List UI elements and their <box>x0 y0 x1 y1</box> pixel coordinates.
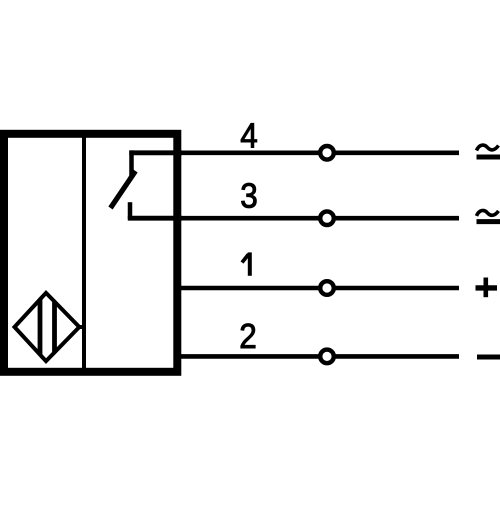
terminal circle pin 2 <box>320 350 334 364</box>
wire 4 <box>178 151 459 156</box>
svg-text:4: 4 <box>240 117 258 156</box>
wire 3 <box>178 216 459 221</box>
AC/DC supply symbol (tilde over bar) at wire 3 <box>477 211 500 222</box>
sensor body rectangle <box>4 134 177 372</box>
plus symbol at wire 1 <box>476 278 498 298</box>
divider line between sensing part and switch part <box>82 134 86 372</box>
terminal circle pin 4 <box>320 146 334 160</box>
svg-text:3: 3 <box>240 177 258 216</box>
AC/DC supply symbol (tilde over bar) at wire 4 <box>477 145 500 157</box>
switch upper lead wire <box>129 150 182 155</box>
sensor symbol inner line left <box>38 294 43 360</box>
switch blade (open contact) <box>111 171 136 208</box>
sensor symbol inner line right <box>52 294 57 360</box>
switch lower terminal stub <box>128 202 133 219</box>
wire 1 <box>178 286 459 291</box>
wire 2 <box>178 354 459 359</box>
proximity sensor symbol rhombus <box>15 293 80 361</box>
switch lower lead wire <box>128 216 182 221</box>
wire from rhombus to divider <box>77 325 86 329</box>
minus symbol at wire 2 <box>477 355 500 360</box>
switch upper terminal stub <box>129 150 134 177</box>
svg-text:2: 2 <box>239 317 257 356</box>
terminal circle pin 1 <box>320 281 334 295</box>
terminal circle pin 3 <box>320 211 334 225</box>
pin label 1 <box>242 252 250 275</box>
